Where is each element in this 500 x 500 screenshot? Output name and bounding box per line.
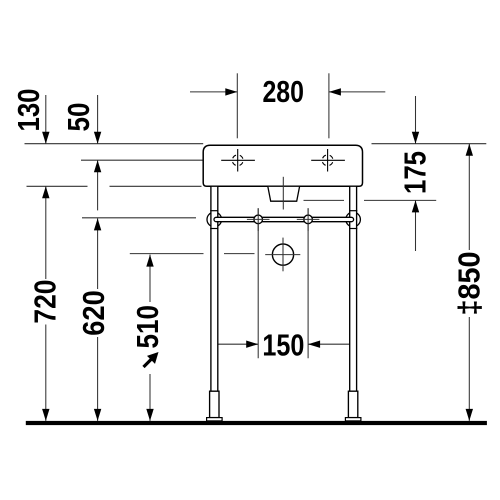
dimension 50 lower arrow xyxy=(97,160,99,210)
right leg foot sleeve xyxy=(348,391,357,417)
extension line overflow bottom right xyxy=(304,199,345,201)
dimension 280 extension line right xyxy=(328,73,330,138)
right rail screw crosshair xyxy=(297,218,320,220)
dimension 720 line xyxy=(45,186,47,279)
left leg base plate xyxy=(207,418,223,421)
left rail screw xyxy=(254,215,263,224)
dimension 150 extension line left xyxy=(257,208,259,358)
svg-text:175: 175 xyxy=(398,151,432,194)
left tap hole crosshair xyxy=(221,149,255,172)
dimension 175 lower arrow xyxy=(415,200,417,251)
svg-text:150: 150 xyxy=(262,329,304,363)
extension line basin bottom left (line C) xyxy=(27,185,88,187)
dimension 280 extension line left xyxy=(236,73,238,138)
dimension 150 extension line right xyxy=(307,208,309,358)
right rail screw xyxy=(304,215,313,224)
dimension 175 upper arrow xyxy=(415,96,417,144)
left leg lower joint xyxy=(210,228,218,230)
left rail screw crosshair xyxy=(247,218,270,220)
left leg foot sleeve xyxy=(210,391,219,417)
extension line tap holes left (line B) xyxy=(81,159,203,161)
svg-text:280: 280 xyxy=(262,75,304,109)
svg-text:510: 510 xyxy=(131,305,165,349)
extension line basin top right xyxy=(372,143,487,145)
floor line xyxy=(26,421,487,425)
drain pipe crosshair vertical xyxy=(282,238,284,272)
svg-text:‡850: ‡850 xyxy=(452,252,486,316)
dimension 150 arrow left xyxy=(214,343,259,345)
svg-text:130: 130 xyxy=(12,89,46,132)
right leg base plate xyxy=(345,418,361,421)
dimension 280 arrow right xyxy=(329,91,385,93)
left leg tube xyxy=(211,186,218,391)
svg-text:720: 720 xyxy=(29,280,63,324)
right leg upper joint xyxy=(349,210,357,212)
extension line drain height left (line E) xyxy=(130,253,204,255)
dimension 150 arrow right xyxy=(308,343,352,345)
right leg ball joint xyxy=(346,212,361,227)
extension line basin top left (line A) xyxy=(25,143,204,145)
dimension 850 line xyxy=(468,144,470,250)
drain pipe crosshair horizontal xyxy=(265,254,300,256)
dimension 130 arrow xyxy=(45,95,47,144)
drain pipe hole xyxy=(272,244,293,265)
towel rail tube xyxy=(214,217,354,221)
right leg tube xyxy=(350,186,357,391)
right leg lower joint xyxy=(349,228,357,230)
svg-text:620: 620 xyxy=(77,290,111,336)
svg-text:50: 50 xyxy=(62,103,96,132)
dimension 510 line xyxy=(149,255,151,302)
left leg ball joint xyxy=(207,212,222,227)
drain outlet trapezoid xyxy=(268,187,300,201)
adjustability arrow symbol xyxy=(144,358,154,368)
dimension 50 upper arrow xyxy=(97,95,99,144)
drain trapezoid centerline xyxy=(282,177,284,210)
left leg upper joint xyxy=(210,210,218,212)
extension line rail top left (line D) xyxy=(82,217,196,219)
dimension 280 arrow left xyxy=(190,91,237,93)
dimension 620 line xyxy=(97,218,99,289)
basin body xyxy=(203,145,362,186)
right tap hole crosshair xyxy=(311,149,345,172)
